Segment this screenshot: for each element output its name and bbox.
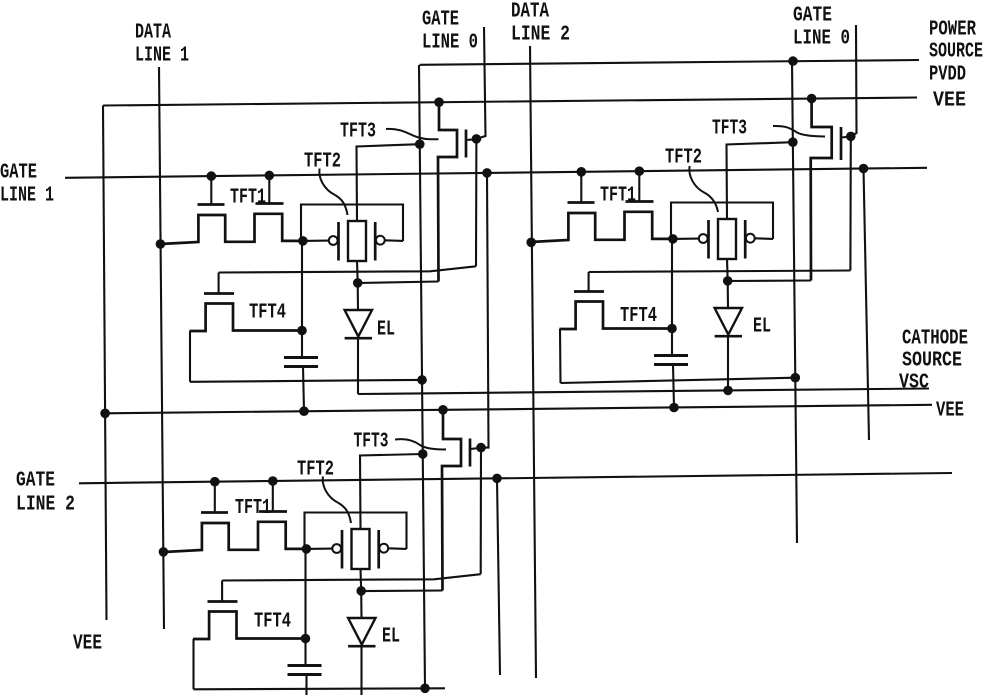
- wire TFT3/TFT4 gate tie line (pixel 3): [222, 574, 481, 580]
- leader curve TFT2 (pixel 3): [323, 477, 351, 524]
- transistor TFT2 (pixel 2) right gate bubble: [746, 234, 755, 243]
- node junction TFT2 drain / EL anode (pixel 2): [723, 276, 733, 286]
- capacitor C (pixel 2): [654, 356, 688, 365]
- wire cell bottom (TFT4 source) (pixel 2): [561, 378, 796, 383]
- svg-text:LINE 0: LINE 0: [793, 28, 850, 51]
- transistor TFT1 (pixel 3) gate risers: [201, 481, 287, 512]
- wire TFT2 source to PVDD feed (pixel 3): [360, 454, 423, 529]
- svg-text:TFT1: TFT1: [600, 185, 636, 208]
- wire TFT2 drain down (pixel 2): [726, 259, 729, 281]
- svg-text:EL: EL: [753, 316, 771, 339]
- node junction cell bottom / PVDD feed (pixel 2): [790, 373, 800, 383]
- wire GATE LINE 0 right drop: [851, 25, 857, 136]
- svg-text:GATE: GATE: [0, 162, 37, 185]
- label EL (pixel 3): [382, 626, 400, 649]
- node junction capacitor / VEE (pixel 2): [669, 403, 679, 413]
- label TFT2 (pixel 1): [304, 151, 341, 174]
- svg-text:VEE: VEE: [936, 400, 964, 423]
- node junction TFT1 source / data line (pixel 1): [156, 239, 166, 249]
- transistor TFT2 (pixel 1) left gate bubble: [329, 236, 338, 245]
- wire TFT3 gate to TFT4 gate (pixel 1): [475, 139, 477, 266]
- transistor TFT4 (pixel 2) gate: [574, 272, 604, 292]
- transistor TFT3 (pixel 3) channel: [442, 410, 461, 591]
- wire storage node TFT1-drain to capacitor (pixel 3): [304, 549, 306, 666]
- wire EL anode lead (pixel 1): [357, 283, 359, 310]
- node junction TFT1 drain (pixel 2): [668, 234, 678, 244]
- node junction EL cathode / VSC (pixel 2): [723, 386, 733, 396]
- wire capacitor bottom lead (pixel 1): [303, 367, 304, 412]
- transistor TFT4 (pixel 1) gate: [204, 273, 234, 294]
- wire TFT3 drain to EL anode (pixel 3): [361, 589, 442, 592]
- wire cell bottom (TFT4 source) (pixel 3): [194, 688, 446, 689]
- wire PVDD feed column (left cells): [419, 65, 425, 689]
- node junction TFT1 gate B (pixel 1): [265, 171, 275, 181]
- label TFT2 (pixel 3): [297, 459, 334, 482]
- transistor TFT2 (pixel 3) body: [352, 529, 370, 569]
- node junction TFT1 gate B (pixel 3): [268, 476, 278, 486]
- transistor TFT3 (pixel 1) gate bar: [465, 130, 468, 158]
- svg-text:TFT2: TFT2: [304, 151, 341, 174]
- label EL (pixel 1): [377, 319, 395, 342]
- node junction TFT1 source / data line (pixel 3): [159, 547, 169, 557]
- transistor TFT4 (pixel 2) channel: [560, 302, 673, 330]
- wire TFT3/TFT4 gate tie line (pixel 2): [589, 271, 851, 273]
- wire capacitor bottom lead (pixel 3): [305, 675, 307, 695]
- wire TFT3 gate to TFT4 gate (pixel 3): [480, 448, 482, 574]
- node junction TFT1 drain (pixel 3): [302, 544, 312, 554]
- node junction capacitor / VEE (pixel 1): [299, 406, 309, 416]
- svg-text:EL: EL: [382, 626, 400, 649]
- label TFT3 (pixel 2): [712, 118, 747, 141]
- transistor TFT3 (pixel 2) gate bar: [840, 127, 843, 160]
- wire VSC cathode-source rail: [358, 389, 929, 395]
- transistor TFT2 (pixel 2) body: [718, 219, 736, 259]
- wire EL cathode lead (pixel 3): [360, 646, 362, 695]
- node junction cell bottom / PVDD feed (pixel 1): [417, 375, 427, 385]
- transistor TFT1 (pixel 2) channel: [530, 212, 673, 242]
- net label POWER SOURCE PVDD: [929, 19, 983, 87]
- net label DATA LINE 2: [511, 1, 570, 47]
- wire TFT4 source drop (pixel 3): [192, 639, 194, 689]
- wire GATE LINE 1 stub down (left): [481, 173, 489, 448]
- transistor TFT4 (pixel 1) channel: [190, 304, 303, 332]
- svg-text:VEE: VEE: [73, 633, 102, 656]
- svg-text:EL: EL: [377, 319, 395, 342]
- svg-text:LINE 1: LINE 1: [0, 185, 54, 208]
- node junction TFT2 drain / EL anode (pixel 1): [353, 278, 363, 288]
- svg-text:PVDD: PVDD: [929, 64, 966, 87]
- wire TFT2 drain down (pixel 3): [359, 569, 362, 591]
- wire TFT2 drain down (pixel 1): [356, 261, 359, 283]
- label TFT2 (pixel 2): [665, 147, 702, 170]
- node junction TFT1 gate B (pixel 2): [635, 166, 645, 176]
- svg-text:CATHODE: CATHODE: [902, 328, 968, 351]
- label TFT4 (pixel 1): [249, 302, 286, 325]
- wire GATE LINE 1 stub down (right): [864, 169, 870, 441]
- wire TFT3 gate tie (pixel 2): [841, 136, 851, 139]
- node junction TFT1 drain (pixel 1): [298, 236, 308, 246]
- wire TFT2 gate tie loop (pixel 3): [305, 513, 407, 550]
- svg-text:TFT4: TFT4: [254, 611, 291, 634]
- wire capacitor bottom lead (pixel 2): [673, 365, 674, 408]
- wire left VEE riser: [103, 106, 107, 621]
- diode EL (pixel 1): [345, 310, 372, 338]
- svg-text:DATA: DATA: [511, 1, 549, 24]
- transistor TFT1 (pixel 1) channel: [160, 214, 303, 244]
- node junction PVDD feed right: [788, 56, 798, 66]
- wire TFT2 right bubble to loop (pixel 1): [385, 239, 403, 242]
- node junction TFT4 drain (pixel 2): [667, 324, 677, 334]
- svg-text:GATE: GATE: [422, 9, 459, 32]
- transistor TFT2 (pixel 2) left gate bar: [707, 220, 710, 259]
- node junction TFT1 source / data line (pixel 2): [526, 238, 536, 248]
- label TFT1 (pixel 3): [235, 497, 271, 520]
- wire cell bottom (TFT4 source) (pixel 1): [190, 380, 422, 382]
- svg-text:LINE 2: LINE 2: [511, 24, 570, 47]
- label TFT1 (pixel 2): [600, 185, 636, 208]
- label TFT4 (pixel 3): [254, 611, 291, 634]
- transistor TFT2 (pixel 3) right gate bar: [377, 530, 380, 569]
- svg-text:LINE 0: LINE 0: [422, 32, 478, 55]
- net label VEE (right middle): [936, 400, 964, 423]
- wire TFT3 drain to EL anode (pixel 1): [358, 282, 439, 284]
- wire TFT3 gate to TFT4 gate (pixel 2): [849, 136, 851, 270]
- node junction TFT3 / VEE (pixel 3): [438, 405, 448, 415]
- diode EL (pixel 2): [715, 308, 742, 336]
- node junction TFT4 drain (pixel 1): [297, 326, 307, 336]
- transistor TFT4 (pixel 3) gate: [208, 581, 238, 602]
- svg-text:GATE: GATE: [793, 5, 832, 28]
- svg-text:TFT2: TFT2: [665, 147, 702, 170]
- transistor TFT1 (pixel 3) channel: [164, 522, 307, 552]
- label TFT3 (pixel 3): [354, 431, 389, 454]
- svg-text:POWER: POWER: [929, 19, 976, 42]
- node junction GATE LINE 1 / stub right: [859, 164, 869, 174]
- label TFT4 (pixel 2): [620, 305, 657, 328]
- label TFT1 (pixel 1): [230, 187, 266, 210]
- transistor TFT2 (pixel 2) right gate bar: [744, 220, 747, 259]
- svg-text:SOURCE: SOURCE: [929, 41, 983, 64]
- wire GATE LINE 2 rail: [79, 473, 952, 483]
- net label VEE (top right): [933, 90, 966, 113]
- label EL (pixel 2): [753, 316, 771, 339]
- node junction TFT4 drain (pixel 3): [301, 634, 311, 644]
- transistor TFT2 (pixel 3) left gate bubble: [332, 544, 341, 553]
- svg-text:TFT1: TFT1: [230, 187, 266, 210]
- net label GATE LINE 0 (right): [793, 5, 850, 51]
- net label CATHODE SOURCE VSC: [899, 328, 968, 395]
- transistor TFT3 (pixel 2) channel: [811, 99, 832, 281]
- wire TFT1 drain to TFT2 gate bubble (pixel 3): [306, 548, 332, 550]
- net label GATE LINE 0 (left): [422, 9, 478, 55]
- svg-text:TFT2: TFT2: [297, 459, 334, 482]
- capacitor C (pixel 1): [284, 358, 318, 367]
- svg-text:GATE: GATE: [16, 470, 55, 493]
- leader curve TFT3 (pixel 1): [386, 129, 439, 139]
- svg-text:SOURCE: SOURCE: [902, 350, 962, 373]
- node junction TFT2 source / PVDD feed (pixel 3): [418, 449, 428, 459]
- svg-text:VSC: VSC: [899, 372, 929, 395]
- wire EL anode lead (pixel 2): [727, 281, 729, 308]
- label TFT3 (pixel 1): [340, 121, 376, 144]
- transistor TFT2 (pixel 3) right gate bubble: [379, 544, 388, 553]
- net label GATE LINE 2: [16, 470, 75, 517]
- net label DATA LINE 1: [135, 22, 189, 68]
- node junction GATE LINE 1 / stub left: [482, 168, 492, 178]
- node junction TFT2 source / PVDD feed (pixel 1): [415, 139, 425, 149]
- node junction VEE-left: [100, 409, 110, 419]
- wire TFT1 drain to TFT2 gate bubble (pixel 1): [303, 240, 329, 242]
- transistor TFT2 (pixel 1) body: [348, 221, 366, 261]
- leader curve TFT2 (pixel 2): [689, 166, 718, 212]
- node junction TFT1 gate A (pixel 2): [577, 167, 587, 177]
- node junction GATE LINE 2 / stub: [492, 474, 502, 484]
- node junction TFT3 gate (pixel 3): [476, 443, 486, 453]
- wire TFT4 source drop (pixel 1): [189, 331, 191, 382]
- wire TFT2 right bubble to loop (pixel 3): [388, 547, 406, 550]
- wire EL anode lead (pixel 3): [360, 591, 362, 618]
- wire TFT2 gate tie loop (pixel 1): [301, 205, 403, 242]
- node junction TFT3 gate (pixel 1): [472, 134, 482, 144]
- wire TFT4 source drop (pixel 2): [559, 329, 562, 383]
- wire GATE LINE 0 left drop: [476, 27, 485, 139]
- transistor TFT1 (pixel 2) gate risers: [568, 171, 654, 202]
- node junction TFT1 gate A (pixel 3): [210, 477, 220, 487]
- leader curve TFT3 (pixel 2): [773, 126, 825, 137]
- transistor TFT1 (pixel 1) gate risers: [198, 175, 284, 204]
- svg-text:DATA: DATA: [135, 22, 171, 45]
- wire GATE LINE 1 rail: [65, 168, 927, 178]
- svg-text:VEE: VEE: [933, 90, 966, 113]
- node junction TFT3 / VEE (pixel 1): [434, 97, 444, 107]
- wire PVDD rail: [420, 60, 920, 65]
- svg-text:TFT3: TFT3: [712, 118, 747, 141]
- wire TFT1 drain to TFT2 gate bubble (pixel 2): [673, 238, 699, 240]
- transistor TFT2 (pixel 3) left gate bar: [341, 530, 344, 569]
- leader curve TFT3 (pixel 3): [395, 439, 446, 449]
- net label VEE (bottom left): [73, 633, 102, 656]
- svg-text:LINE 1: LINE 1: [135, 45, 189, 68]
- wire TFT3 gate tie (pixel 1): [466, 138, 476, 141]
- node junction TFT3 gate (pixel 2): [846, 132, 856, 142]
- node junction cell bottom / PVDD feed (pixel 3): [420, 684, 430, 694]
- wire EL cathode lead (pixel 2): [727, 336, 729, 390]
- wire TFT2 right bubble to loop (pixel 2): [755, 237, 773, 240]
- transistor TFT2 (pixel 1) right gate bar: [374, 222, 377, 261]
- svg-text:TFT4: TFT4: [620, 305, 657, 328]
- wire DATA LINE 1 rail: [159, 67, 164, 629]
- svg-text:LINE 2: LINE 2: [16, 494, 75, 517]
- wire storage node TFT1-drain to capacitor (pixel 1): [301, 241, 303, 358]
- node junction TFT2 drain / EL anode (pixel 3): [356, 586, 366, 596]
- svg-text:TFT3: TFT3: [354, 431, 389, 454]
- transistor TFT2 (pixel 1) right gate bubble: [376, 236, 385, 245]
- leader curve TFT2 (pixel 1): [319, 169, 347, 216]
- wire TFT3 gate tie (pixel 3): [470, 448, 481, 449]
- wire GATE LINE 2 stub down: [497, 478, 500, 675]
- net label GATE LINE 1: [0, 162, 54, 208]
- node junction TFT2 source / PVDD feed (pixel 2): [788, 137, 798, 147]
- wire VEE top rail: [103, 98, 917, 106]
- node junction TFT1 gate A (pixel 1): [207, 171, 217, 181]
- transistor TFT3 (pixel 3) gate bar: [469, 439, 472, 467]
- wire PVDD feed column (right cell): [792, 61, 797, 543]
- svg-text:TFT1: TFT1: [235, 497, 271, 520]
- transistor TFT3 (pixel 1) channel: [438, 102, 457, 281]
- node junction TFT3 / VEE (pixel 2): [807, 94, 817, 104]
- svg-text:TFT4: TFT4: [249, 302, 286, 325]
- wire storage node TFT1-drain to capacitor (pixel 2): [671, 239, 673, 356]
- wire TFT2 gate tie loop (pixel 2): [671, 203, 773, 240]
- wire EL cathode lead (pixel 1): [357, 338, 359, 394]
- wire TFT3/TFT4 gate tie line (pixel 1): [219, 266, 476, 272]
- svg-text:TFT3: TFT3: [340, 121, 376, 144]
- wire TFT2 source to PVDD feed (pixel 1): [357, 144, 420, 221]
- transistor TFT2 (pixel 1) left gate bar: [337, 222, 340, 261]
- capacitor C (pixel 3): [288, 666, 322, 675]
- wire VEE bottom rail: [105, 405, 932, 414]
- transistor TFT4 (pixel 3) channel: [193, 612, 306, 640]
- wire TFT2 source to PVDD feed (pixel 2): [727, 142, 793, 219]
- diode EL (pixel 3): [348, 618, 375, 646]
- wire DATA LINE 2 rail: [530, 46, 536, 678]
- wire TFT3 drain to EL anode (pixel 2): [728, 279, 811, 282]
- transistor TFT2 (pixel 2) left gate bubble: [699, 234, 708, 243]
